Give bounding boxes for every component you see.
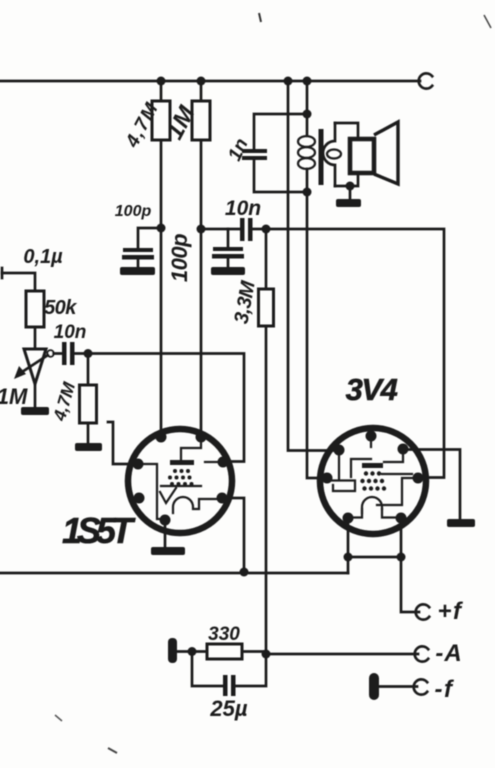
svg-text:10n: 10n bbox=[54, 322, 87, 343]
svg-text:50k: 50k bbox=[44, 297, 77, 319]
svg-text:1M: 1M bbox=[0, 384, 28, 409]
svg-text:100p: 100p bbox=[115, 203, 152, 220]
svg-text:330: 330 bbox=[208, 624, 240, 645]
svg-text:+f: +f bbox=[437, 598, 463, 625]
svg-text:3V4: 3V4 bbox=[346, 372, 398, 407]
svg-text:10n: 10n bbox=[225, 197, 261, 220]
svg-text:25µ: 25µ bbox=[209, 696, 247, 721]
svg-text:-A: -A bbox=[435, 640, 462, 667]
svg-text:100p: 100p bbox=[167, 234, 192, 282]
svg-text:0,1µ: 0,1µ bbox=[23, 246, 63, 268]
svg-text:1S5T: 1S5T bbox=[62, 510, 136, 551]
svg-text:-f: -f bbox=[435, 676, 454, 703]
